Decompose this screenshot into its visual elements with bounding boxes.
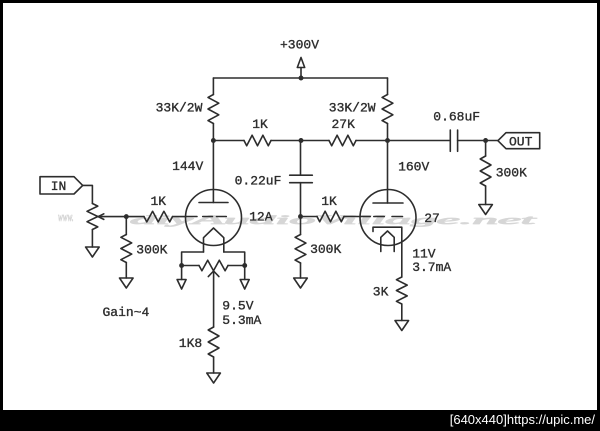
V2 anode lead: [387, 141, 389, 204]
svg-text:0.22uF: 0.22uF: [235, 174, 282, 189]
ground under R7: [479, 186, 493, 215]
svg-text:1K: 1K: [150, 194, 166, 209]
ground under volume pot: [86, 230, 100, 258]
V2 plate: [373, 202, 403, 204]
node plate V2 junction: [385, 138, 390, 143]
capacitor 0.68uF (C2): [433, 110, 480, 152]
svg-text:+300V: +300V: [280, 38, 319, 53]
svg-text:300K: 300K: [136, 242, 167, 257]
tube V1 type 12A envelope: [186, 190, 242, 246]
resistor 33K/2W left (R1): [156, 78, 219, 141]
tube V2 type 27 envelope: [360, 190, 416, 246]
potentiometer volume pot body: [87, 204, 98, 230]
port OUT tag: [498, 133, 540, 150]
capacitor 0.22uF (C1): [235, 174, 313, 189]
node hum pot left: [179, 263, 184, 268]
pot wiper arrow: [98, 214, 144, 220]
svg-text:3.7mA: 3.7mA: [412, 260, 451, 275]
node grid V2 junction: [298, 214, 303, 219]
svg-text:160V: 160V: [398, 159, 429, 174]
resistor 300K output leak (R7): [480, 141, 527, 187]
svg-text:1K: 1K: [252, 117, 268, 132]
svg-text:144V: 144V: [172, 159, 203, 174]
resistor 33K/2W right (R2): [329, 78, 393, 141]
V1 grid: [186, 216, 226, 218]
node B+ junction: [299, 76, 304, 81]
svg-text:12A: 12A: [249, 210, 273, 225]
svg-text:0.68uF: 0.68uF: [433, 110, 480, 125]
wire R3 to V1 grid: [173, 216, 187, 218]
wire plate V2 to C2: [388, 140, 451, 142]
V1 filament: [204, 228, 224, 252]
svg-text:OUT: OUT: [509, 134, 533, 149]
svg-text:Gain~4: Gain~4: [102, 305, 149, 320]
wire C1 to grid node: [300, 183, 302, 217]
V2 heater: [381, 231, 394, 252]
wire coupling node down: [300, 141, 302, 176]
node hum pot right: [242, 263, 247, 268]
V1 anode lead: [212, 141, 214, 203]
svg-text:IN: IN: [51, 179, 67, 194]
resistor 1K interstage: [244, 117, 271, 146]
filament supply arrow left: [177, 266, 186, 290]
port IN tag: [40, 177, 83, 194]
svg-text:9.5V: 9.5V: [222, 299, 253, 314]
wire IN to pot: [83, 185, 93, 203]
power +300V supply arrow: [280, 38, 319, 78]
svg-text:1K: 1K: [321, 194, 337, 209]
wire plate V1 to 1K: [213, 140, 244, 142]
svg-text:diyAudioVillage.net: diyAudioVillage.net: [130, 212, 536, 227]
ground under R6: [294, 263, 308, 288]
svg-text:27: 27: [424, 211, 440, 226]
hum pot wiper arrow: [208, 271, 219, 327]
svg-text:5.3mA: 5.3mA: [222, 313, 261, 328]
resistor 300K grid leak V1 (R4): [121, 217, 168, 263]
svg-text:3K: 3K: [373, 284, 389, 299]
svg-text:www.: www.: [58, 211, 74, 225]
wire 1K to 27K: [271, 140, 329, 142]
wire filament left leg: [182, 252, 204, 266]
resistor 1K grid stopper V1 (R3): [144, 194, 173, 222]
filament supply arrow right: [240, 266, 249, 290]
resistor 1K grid stopper V2 (R5): [301, 194, 345, 222]
ground under R4: [120, 263, 134, 289]
resistor 1K8 cathode (R8): [179, 327, 219, 357]
ground under R9: [395, 304, 409, 331]
resistor 27K: [329, 135, 356, 146]
V1 plate: [199, 202, 228, 204]
wire top B+ rail: [213, 77, 387, 79]
node grid V1 junction: [124, 214, 129, 219]
resistor 3K cathode V2 (R9): [373, 277, 407, 304]
ground under R8: [207, 357, 221, 383]
svg-text:1K8: 1K8: [179, 336, 202, 351]
svg-text:27K: 27K: [331, 117, 355, 132]
potentiometer hum balance: [182, 260, 245, 271]
V2 grid: [374, 216, 403, 218]
node coupling junction: [299, 138, 304, 143]
svg-text:300K: 300K: [496, 166, 527, 181]
V2 cathode: [373, 227, 402, 277]
svg-text:33K/2W: 33K/2W: [329, 100, 376, 115]
node OUT junction: [483, 138, 488, 143]
svg-text:33K/2W: 33K/2W: [156, 100, 203, 115]
svg-text:300K: 300K: [310, 242, 341, 257]
wire 27K to plate V2 node: [356, 140, 388, 142]
wire filament right leg: [224, 252, 245, 266]
wire R5 to V2 grid: [344, 216, 370, 218]
resistor 300K grid leak V2 (R6): [295, 217, 341, 264]
node plate V1 junction: [211, 138, 216, 143]
wire C2 to OUT: [458, 140, 498, 142]
